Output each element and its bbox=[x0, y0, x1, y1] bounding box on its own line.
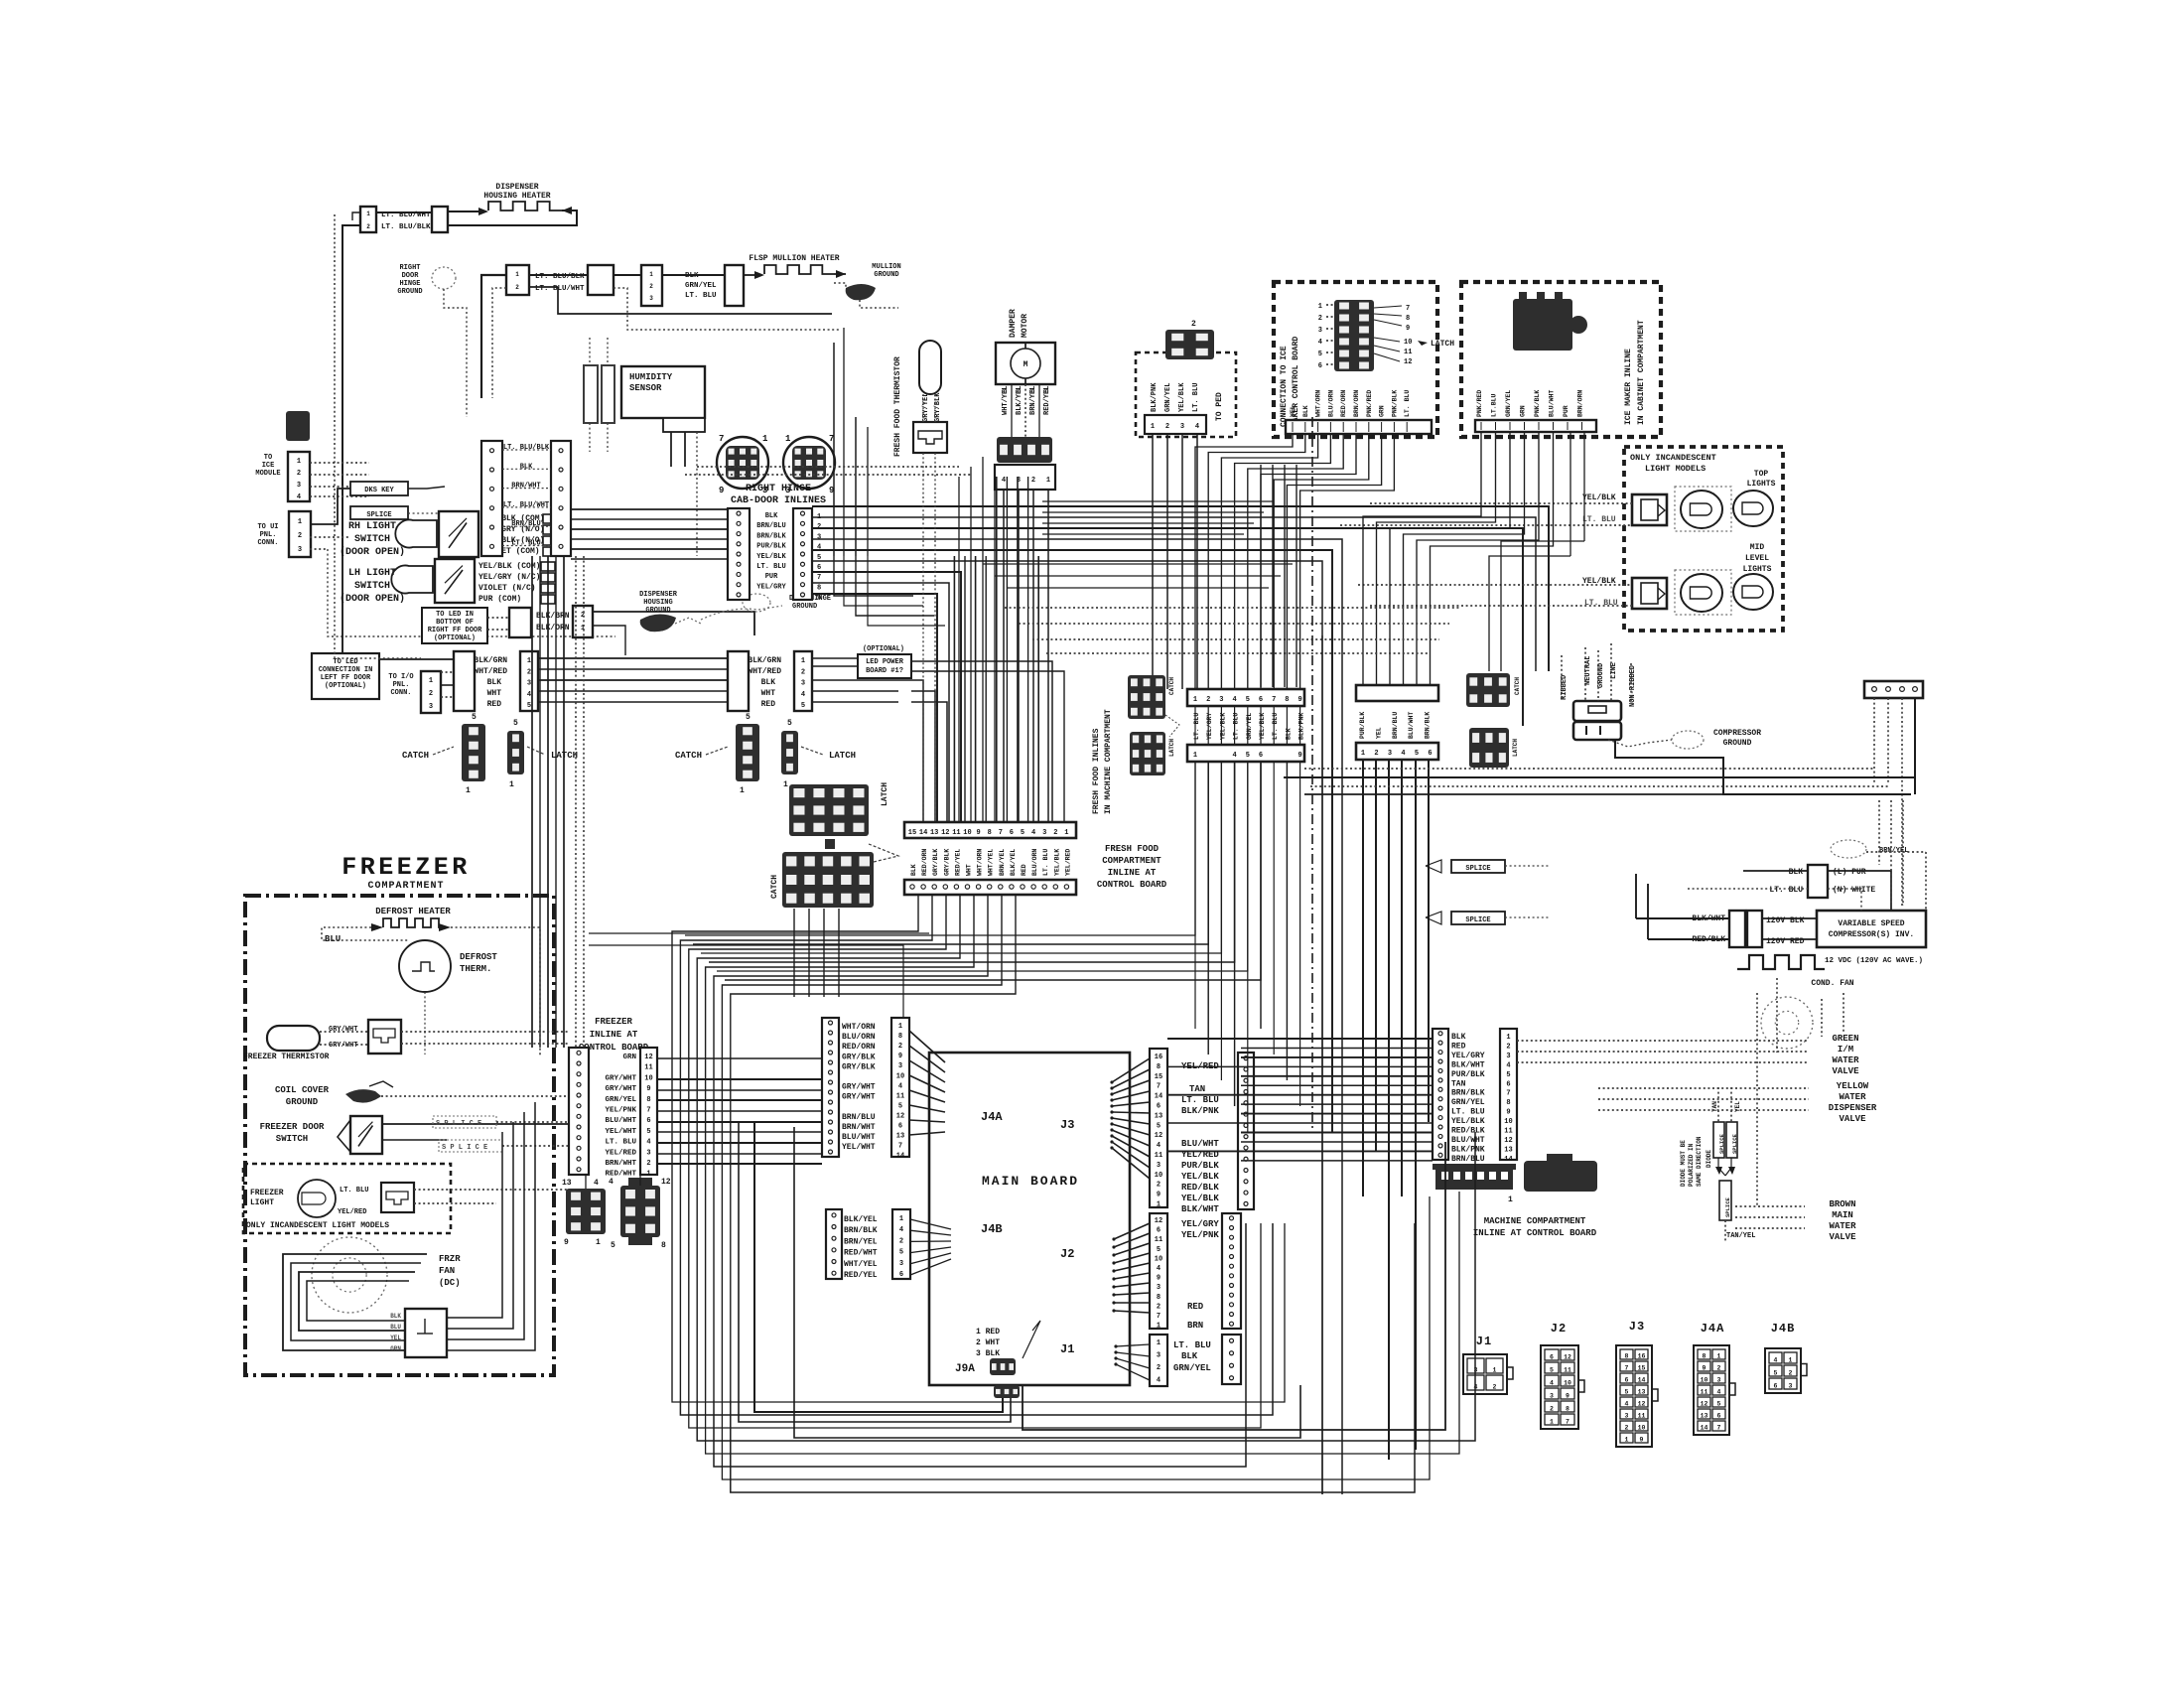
svg-text:4: 4 bbox=[801, 691, 805, 699]
svg-text:8: 8 bbox=[646, 1096, 650, 1104]
svg-text:VALVE: VALVE bbox=[1839, 1114, 1866, 1124]
svg-text:WHT/YEL: WHT/YEL bbox=[988, 849, 995, 876]
svg-text:YELLOW: YELLOW bbox=[1837, 1081, 1869, 1091]
svg-text:YEL/GRY: YEL/GRY bbox=[1181, 1219, 1219, 1229]
svg-text:9: 9 bbox=[1157, 1275, 1160, 1283]
svg-text:1: 1 bbox=[1361, 750, 1365, 758]
svg-text:BLK/YEL: BLK/YEL bbox=[844, 1215, 878, 1224]
svg-text:4: 4 bbox=[609, 1178, 614, 1187]
svg-text:13: 13 bbox=[896, 1133, 904, 1141]
svg-text:HOUSING HEATER: HOUSING HEATER bbox=[483, 192, 550, 201]
svg-text:GRY/WHT: GRY/WHT bbox=[329, 1042, 357, 1050]
svg-text:9: 9 bbox=[817, 595, 821, 603]
svg-text:10: 10 bbox=[1155, 1255, 1162, 1263]
svg-text:SWITCH: SWITCH bbox=[276, 1134, 308, 1144]
svg-text:SPLICE: SPLICE bbox=[1465, 865, 1490, 873]
svg-text:TAN: TAN bbox=[1451, 1079, 1466, 1088]
svg-text:BRN/WHT: BRN/WHT bbox=[605, 1160, 636, 1168]
svg-text:HUMIDITY: HUMIDITY bbox=[629, 372, 673, 382]
svg-text:GRN/YEL: GRN/YEL bbox=[1505, 390, 1512, 417]
svg-text:9: 9 bbox=[1157, 1192, 1160, 1199]
svg-text:8: 8 bbox=[1157, 1063, 1160, 1071]
svg-text:J1: J1 bbox=[1476, 1335, 1492, 1348]
svg-text:YEL/BLK: YEL/BLK bbox=[1259, 713, 1266, 740]
svg-text:5: 5 bbox=[899, 1249, 903, 1257]
svg-text:BLK: BLK bbox=[685, 272, 699, 280]
svg-text:TO LED: TO LED bbox=[333, 658, 357, 666]
svg-text:GRY/WHT: GRY/WHT bbox=[842, 1093, 876, 1102]
svg-text:LT. BLU: LT. BLU bbox=[1451, 1108, 1485, 1117]
svg-text:RED: RED bbox=[1187, 1302, 1204, 1312]
svg-text:WATER: WATER bbox=[1832, 1055, 1859, 1065]
svg-text:1: 1 bbox=[899, 1215, 903, 1223]
svg-text:6: 6 bbox=[1157, 1103, 1160, 1111]
svg-text:I/M: I/M bbox=[1838, 1045, 1853, 1055]
svg-text:BLU/WHT: BLU/WHT bbox=[1451, 1136, 1485, 1145]
svg-text:YEL/PNK: YEL/PNK bbox=[605, 1107, 636, 1115]
svg-text:2: 2 bbox=[1789, 1370, 1793, 1377]
svg-text:WATER: WATER bbox=[1839, 1092, 1866, 1102]
svg-text:YEL/PNK: YEL/PNK bbox=[1181, 1230, 1219, 1240]
svg-text:LT. BLU/BLK: LT. BLU/BLK bbox=[503, 444, 550, 452]
svg-text:WATER: WATER bbox=[1829, 1221, 1856, 1231]
svg-text:LT. BLU: LT. BLU bbox=[511, 540, 540, 548]
svg-text:SWITCH: SWITCH bbox=[354, 581, 390, 592]
svg-text:WHT/ORN: WHT/ORN bbox=[977, 849, 984, 876]
svg-text:9: 9 bbox=[719, 486, 724, 495]
svg-text:BRN/BLK: BRN/BLK bbox=[844, 1226, 878, 1235]
svg-text:YEL/BLK: YEL/BLK bbox=[1582, 493, 1616, 502]
svg-text:GRY/BLK: GRY/BLK bbox=[842, 1062, 876, 1071]
svg-text:13: 13 bbox=[930, 829, 938, 837]
svg-text:5: 5 bbox=[1506, 1071, 1510, 1079]
svg-text:BRN/YEL: BRN/YEL bbox=[999, 849, 1006, 876]
svg-text:BLK: BLK bbox=[390, 1313, 401, 1320]
svg-text:7: 7 bbox=[1157, 1083, 1160, 1091]
svg-text:7: 7 bbox=[1506, 1090, 1510, 1098]
svg-text:8: 8 bbox=[1506, 1099, 1510, 1107]
svg-text:COIL COVER: COIL COVER bbox=[275, 1085, 330, 1095]
svg-text:FREEZER: FREEZER bbox=[595, 1017, 632, 1027]
svg-text:BLU/ORN: BLU/ORN bbox=[842, 1033, 876, 1042]
svg-text:9: 9 bbox=[1406, 325, 1410, 333]
svg-text:2 WHT: 2 WHT bbox=[976, 1338, 1000, 1347]
svg-text:RED/ORN: RED/ORN bbox=[921, 849, 928, 876]
svg-text:2: 2 bbox=[898, 1043, 902, 1051]
svg-text:J3: J3 bbox=[1629, 1320, 1645, 1334]
svg-text:5: 5 bbox=[513, 719, 518, 728]
svg-text:CATCH: CATCH bbox=[1168, 677, 1175, 695]
svg-text:BLU: BLU bbox=[325, 934, 341, 944]
svg-text:RED: RED bbox=[761, 700, 776, 709]
svg-text:COND. FAN: COND. FAN bbox=[1811, 979, 1853, 988]
svg-text:3: 3 bbox=[817, 533, 821, 541]
svg-text:2: 2 bbox=[515, 284, 519, 291]
svg-text:4: 4 bbox=[1625, 1401, 1629, 1408]
svg-text:WHT/YEL: WHT/YEL bbox=[1002, 386, 1010, 415]
svg-text:3: 3 bbox=[1625, 1413, 1629, 1420]
svg-text:LT. BLU: LT. BLU bbox=[1769, 886, 1803, 895]
svg-text:5: 5 bbox=[1157, 1246, 1160, 1254]
svg-text:7: 7 bbox=[1406, 305, 1410, 313]
svg-text:LT. BLU/BLK: LT. BLU/BLK bbox=[381, 223, 431, 231]
svg-text:LEFT FF DOOR: LEFT FF DOOR bbox=[321, 674, 371, 682]
svg-text:2: 2 bbox=[646, 1160, 650, 1168]
svg-text:6: 6 bbox=[1774, 1383, 1778, 1390]
svg-text:3: 3 bbox=[646, 1149, 650, 1157]
svg-text:6: 6 bbox=[1506, 1080, 1510, 1088]
svg-text:3: 3 bbox=[1042, 829, 1046, 837]
svg-text:GROUND: GROUND bbox=[792, 603, 817, 611]
svg-text:4: 4 bbox=[1157, 1265, 1160, 1273]
svg-text:YEL/BLK: YEL/BLK bbox=[1181, 1194, 1219, 1203]
svg-text:SENSOR: SENSOR bbox=[629, 383, 662, 393]
svg-text:1: 1 bbox=[429, 677, 433, 685]
svg-text:BLK/PNK: BLK/PNK bbox=[1181, 1106, 1219, 1116]
svg-text:14: 14 bbox=[1155, 1093, 1162, 1101]
svg-text:11: 11 bbox=[952, 829, 960, 837]
svg-text:2: 2 bbox=[801, 668, 805, 676]
svg-text:MID: MID bbox=[1750, 543, 1765, 552]
svg-text:YEL/BLK: YEL/BLK bbox=[756, 553, 786, 561]
svg-text:CONNECTION TO ICE: CONNECTION TO ICE bbox=[1280, 346, 1289, 427]
svg-text:J9A: J9A bbox=[955, 1363, 975, 1375]
svg-text:10: 10 bbox=[1404, 339, 1412, 347]
svg-text:3: 3 bbox=[1157, 1284, 1160, 1292]
svg-text:J4A: J4A bbox=[981, 1110, 1003, 1124]
svg-text:GROUND: GROUND bbox=[397, 288, 422, 296]
svg-text:1: 1 bbox=[646, 1171, 650, 1179]
svg-text:1: 1 bbox=[527, 657, 531, 665]
svg-text:TAN/YEL: TAN/YEL bbox=[1726, 1232, 1755, 1240]
svg-text:6: 6 bbox=[1259, 696, 1263, 704]
svg-text:LATCH: LATCH bbox=[829, 751, 856, 761]
svg-text:1: 1 bbox=[509, 780, 514, 789]
svg-text:PNK/BLK: PNK/BLK bbox=[1534, 390, 1541, 417]
svg-text:CONN.: CONN. bbox=[390, 689, 411, 697]
svg-text:15: 15 bbox=[908, 829, 916, 837]
svg-text:TO I/O: TO I/O bbox=[388, 673, 413, 681]
svg-text:(L) PUR: (L) PUR bbox=[1833, 868, 1866, 877]
svg-text:4: 4 bbox=[1318, 339, 1322, 347]
svg-text:IN CABINET COMPARTMENT: IN CABINET COMPARTMENT bbox=[1637, 320, 1646, 425]
svg-text:YEL/RED: YEL/RED bbox=[605, 1149, 636, 1157]
svg-text:10: 10 bbox=[896, 1072, 904, 1080]
svg-text:LIGHT MODELS: LIGHT MODELS bbox=[1645, 464, 1706, 474]
svg-text:3: 3 bbox=[1717, 1377, 1721, 1384]
svg-text:10: 10 bbox=[1701, 1377, 1708, 1384]
svg-text:1: 1 bbox=[1151, 423, 1155, 431]
svg-text:1: 1 bbox=[740, 786, 745, 795]
svg-text:BLK/YEL: BLK/YEL bbox=[1016, 386, 1024, 415]
svg-text:3: 3 bbox=[298, 546, 302, 554]
svg-text:1: 1 bbox=[1625, 1437, 1629, 1444]
svg-text:J3: J3 bbox=[1060, 1118, 1074, 1132]
svg-text:GRN: GRN bbox=[390, 1345, 401, 1352]
svg-text:1: 1 bbox=[783, 780, 788, 789]
svg-text:7: 7 bbox=[898, 1143, 902, 1151]
svg-text:6: 6 bbox=[1625, 1377, 1629, 1384]
svg-text:4: 4 bbox=[527, 691, 531, 699]
svg-text:PNK/RED: PNK/RED bbox=[1476, 390, 1483, 417]
svg-text:BLK/PNK: BLK/PNK bbox=[1451, 1145, 1485, 1154]
svg-text:14: 14 bbox=[896, 1153, 904, 1161]
svg-text:BLK: BLK bbox=[1285, 728, 1292, 740]
svg-text:PUR: PUR bbox=[765, 573, 778, 581]
svg-text:BLK/GRN: BLK/GRN bbox=[474, 656, 507, 665]
svg-text:5: 5 bbox=[472, 713, 477, 722]
svg-text:4: 4 bbox=[1717, 1389, 1721, 1396]
svg-text:8: 8 bbox=[661, 1241, 666, 1250]
svg-text:DEFROST HEATER: DEFROST HEATER bbox=[375, 907, 451, 916]
svg-text:RED/YEL: RED/YEL bbox=[844, 1271, 878, 1280]
svg-text:1: 1 bbox=[1193, 696, 1197, 704]
svg-text:7: 7 bbox=[719, 434, 724, 444]
svg-text:YEL/BLK: YEL/BLK bbox=[1181, 1172, 1219, 1182]
svg-text:1: 1 bbox=[466, 786, 471, 795]
svg-text:8: 8 bbox=[1566, 1406, 1570, 1413]
svg-text:6: 6 bbox=[817, 564, 821, 572]
svg-text:8: 8 bbox=[1406, 315, 1410, 323]
svg-text:BRN/YEL: BRN/YEL bbox=[1029, 386, 1037, 415]
svg-text:3: 3 bbox=[801, 680, 805, 688]
svg-text:5: 5 bbox=[646, 1128, 650, 1136]
svg-text:PNK/RED: PNK/RED bbox=[1366, 390, 1373, 417]
svg-text:CATCH: CATCH bbox=[402, 751, 429, 761]
svg-text:4: 4 bbox=[1506, 1061, 1510, 1069]
svg-text:BRN/BLU: BRN/BLU bbox=[511, 520, 540, 528]
svg-text:WHT: WHT bbox=[761, 689, 776, 698]
svg-text:J4A: J4A bbox=[1701, 1322, 1725, 1336]
svg-text:YEL/RED: YEL/RED bbox=[1064, 849, 1071, 876]
svg-text:J4B: J4B bbox=[1771, 1322, 1796, 1336]
svg-text:6: 6 bbox=[1550, 1354, 1554, 1361]
svg-text:16: 16 bbox=[1155, 1054, 1162, 1061]
svg-text:BLK: BLK bbox=[1451, 1033, 1466, 1042]
svg-text:2: 2 bbox=[1493, 1384, 1497, 1391]
svg-text:MODULE: MODULE bbox=[255, 470, 280, 478]
svg-text:HINGE: HINGE bbox=[399, 280, 420, 288]
svg-text:BRN/YEL: BRN/YEL bbox=[1879, 847, 1908, 855]
svg-text:BRN/BLK: BRN/BLK bbox=[1451, 1089, 1485, 1098]
svg-text:FAN: FAN bbox=[439, 1266, 455, 1276]
svg-text:4: 4 bbox=[594, 1179, 599, 1188]
svg-text:LED POWER: LED POWER bbox=[866, 658, 904, 666]
svg-text:12: 12 bbox=[1638, 1401, 1646, 1408]
svg-text:FRESH FOOD THERMISTOR: FRESH FOOD THERMISTOR bbox=[893, 356, 902, 457]
svg-text:LT. BLU: LT. BLU bbox=[1582, 515, 1616, 524]
svg-text:GRN/YEL: GRN/YEL bbox=[1451, 1098, 1485, 1107]
svg-text:LT. BLU: LT. BLU bbox=[1404, 390, 1411, 417]
svg-text:RIGHT HINGE: RIGHT HINGE bbox=[746, 484, 811, 494]
svg-text:BLU: BLU bbox=[390, 1324, 401, 1331]
svg-text:12: 12 bbox=[1504, 1137, 1512, 1145]
svg-text:POLARIZED IN: POLARIZED IN bbox=[1688, 1143, 1695, 1187]
svg-text:RED/YEL: RED/YEL bbox=[1043, 386, 1051, 415]
svg-text:BLU/WHT: BLU/WHT bbox=[1181, 1139, 1219, 1149]
svg-text:3: 3 bbox=[297, 482, 301, 490]
svg-text:MOTOR: MOTOR bbox=[1021, 314, 1029, 338]
svg-text:14: 14 bbox=[1504, 1156, 1512, 1164]
svg-text:TAN: TAN bbox=[1189, 1084, 1205, 1094]
svg-text:BLK/WHT: BLK/WHT bbox=[1181, 1204, 1219, 1214]
svg-text:4: 4 bbox=[646, 1139, 650, 1147]
svg-text:MAIN: MAIN bbox=[1832, 1210, 1853, 1220]
svg-text:SPLICE: SPLICE bbox=[1724, 1196, 1731, 1217]
svg-text:ICE MAKER INLINE: ICE MAKER INLINE bbox=[1624, 349, 1633, 425]
svg-text:12: 12 bbox=[941, 829, 949, 837]
svg-text:(OPTIONAL): (OPTIONAL) bbox=[325, 682, 366, 690]
svg-text:1: 1 bbox=[762, 434, 768, 444]
svg-text:LATCH: LATCH bbox=[881, 782, 889, 806]
svg-text:CAB-DOOR INLINES: CAB-DOOR INLINES bbox=[731, 495, 826, 506]
svg-text:WHT/YEL: WHT/YEL bbox=[844, 1260, 878, 1269]
svg-text:FREEZER: FREEZER bbox=[250, 1189, 284, 1197]
svg-text:DEFROST: DEFROST bbox=[460, 952, 497, 962]
svg-text:PNL.: PNL. bbox=[260, 531, 277, 539]
svg-text:TOP: TOP bbox=[1754, 470, 1769, 479]
svg-text:DISPENSER: DISPENSER bbox=[639, 591, 678, 599]
svg-text:LT. BLU: LT. BLU bbox=[605, 1139, 636, 1147]
svg-text:BRN/BLU: BRN/BLU bbox=[1451, 1155, 1485, 1164]
svg-text:GRY/BLK: GRY/BLK bbox=[943, 849, 950, 876]
svg-text:7: 7 bbox=[1272, 696, 1276, 704]
svg-text:2: 2 bbox=[1717, 1365, 1721, 1372]
svg-text:9: 9 bbox=[898, 1053, 902, 1060]
svg-text:9: 9 bbox=[976, 829, 980, 837]
svg-text:11: 11 bbox=[1638, 1413, 1646, 1420]
svg-text:4: 4 bbox=[899, 1226, 903, 1234]
svg-text:11: 11 bbox=[1155, 1152, 1162, 1160]
svg-text:LT. BLU/WHT: LT. BLU/WHT bbox=[503, 501, 549, 509]
svg-text:12: 12 bbox=[644, 1054, 652, 1061]
svg-text:7: 7 bbox=[999, 829, 1003, 837]
svg-text:RED: RED bbox=[1451, 1042, 1466, 1051]
svg-text:GRY/BLK: GRY/BLK bbox=[932, 849, 939, 876]
svg-text:3: 3 bbox=[1219, 696, 1223, 704]
svg-text:1: 1 bbox=[1064, 829, 1068, 837]
svg-text:6: 6 bbox=[899, 1271, 903, 1279]
svg-text:INLINE AT CONTROL BOARD: INLINE AT CONTROL BOARD bbox=[1473, 1228, 1597, 1238]
svg-text:LATCH: LATCH bbox=[1168, 739, 1175, 757]
svg-text:LT. BLU: LT. BLU bbox=[1233, 713, 1240, 740]
svg-text:LT. BLU: LT. BLU bbox=[1272, 713, 1279, 740]
svg-text:BLK/PNK: BLK/PNK bbox=[1151, 382, 1159, 412]
svg-text:GRN: GRN bbox=[622, 1054, 636, 1061]
svg-text:INLINE AT: INLINE AT bbox=[1108, 868, 1157, 878]
svg-text:PNL.: PNL. bbox=[393, 681, 410, 689]
svg-text:12: 12 bbox=[1564, 1354, 1571, 1361]
svg-text:2: 2 bbox=[1031, 477, 1035, 485]
svg-text:2: 2 bbox=[1053, 829, 1057, 837]
svg-text:2: 2 bbox=[1165, 423, 1169, 431]
svg-text:13: 13 bbox=[562, 1179, 572, 1188]
svg-text:YEL/BLK: YEL/BLK bbox=[1219, 713, 1226, 740]
svg-text:J1: J1 bbox=[1060, 1342, 1074, 1356]
svg-text:1: 1 bbox=[1157, 1339, 1160, 1347]
svg-text:VALVE: VALVE bbox=[1832, 1066, 1859, 1076]
svg-text:5: 5 bbox=[1246, 696, 1250, 704]
svg-text:4: 4 bbox=[1550, 1380, 1554, 1387]
svg-text:M: M bbox=[1024, 360, 1028, 369]
svg-text:BRN/WHT: BRN/WHT bbox=[511, 483, 540, 491]
svg-text:GRN/YEL: GRN/YEL bbox=[685, 282, 717, 290]
svg-text:6: 6 bbox=[1318, 362, 1322, 370]
svg-text:4: 4 bbox=[1195, 423, 1199, 431]
svg-text:14: 14 bbox=[1701, 1425, 1708, 1432]
svg-text:15: 15 bbox=[1155, 1073, 1162, 1081]
svg-text:GRN: GRN bbox=[1379, 405, 1386, 417]
svg-text:16: 16 bbox=[1638, 1353, 1646, 1360]
svg-text:11: 11 bbox=[1404, 349, 1412, 356]
svg-text:8: 8 bbox=[988, 829, 992, 837]
svg-text:LT. BLU: LT. BLU bbox=[1192, 383, 1200, 412]
svg-text:ONLY INCANDESCENT LIGHT MODELS: ONLY INCANDESCENT LIGHT MODELS bbox=[246, 1221, 389, 1230]
svg-text:RH LIGHT: RH LIGHT bbox=[348, 521, 396, 532]
svg-text:9: 9 bbox=[1506, 1109, 1510, 1117]
svg-text:3: 3 bbox=[527, 680, 531, 688]
svg-text:9: 9 bbox=[646, 1085, 650, 1093]
svg-text:VARIABLE SPEED: VARIABLE SPEED bbox=[1838, 919, 1904, 928]
svg-text:YEL/GRY: YEL/GRY bbox=[1206, 713, 1213, 740]
svg-text:10: 10 bbox=[1564, 1380, 1571, 1387]
svg-text:3: 3 bbox=[1789, 1383, 1793, 1390]
svg-text:6: 6 bbox=[1259, 752, 1263, 760]
svg-text:TO UI: TO UI bbox=[257, 523, 278, 531]
svg-text:BLK: BLK bbox=[1181, 1351, 1198, 1361]
svg-text:HOUSING: HOUSING bbox=[643, 599, 672, 607]
svg-text:4: 4 bbox=[297, 493, 301, 501]
svg-text:14: 14 bbox=[919, 829, 927, 837]
svg-text:8: 8 bbox=[1625, 1353, 1629, 1360]
svg-text:1: 1 bbox=[1789, 1357, 1793, 1364]
svg-text:9: 9 bbox=[564, 1238, 569, 1247]
svg-text:3: 3 bbox=[1180, 423, 1184, 431]
svg-text:6: 6 bbox=[1428, 750, 1432, 758]
svg-text:7: 7 bbox=[817, 574, 821, 582]
svg-text:1: 1 bbox=[596, 1238, 601, 1247]
svg-text:TO PED: TO PED bbox=[1215, 392, 1224, 421]
svg-text:(OPTIONAL): (OPTIONAL) bbox=[863, 645, 904, 653]
svg-text:6: 6 bbox=[646, 1117, 650, 1125]
svg-text:BLK/WHT: BLK/WHT bbox=[1451, 1060, 1485, 1069]
svg-text:BRN/WHT: BRN/WHT bbox=[842, 1123, 876, 1132]
svg-text:IN MACHINE COMPARTMENT: IN MACHINE COMPARTMENT bbox=[1104, 709, 1113, 814]
svg-text:GRY/WHT: GRY/WHT bbox=[605, 1085, 636, 1093]
svg-text:BRN/BLU: BRN/BLU bbox=[1392, 712, 1399, 739]
svg-text:DISPENSER: DISPENSER bbox=[1829, 1103, 1877, 1113]
svg-text:TO LED IN: TO LED IN bbox=[436, 611, 474, 619]
svg-text:9: 9 bbox=[1297, 752, 1301, 760]
svg-text:6: 6 bbox=[1157, 1227, 1160, 1235]
svg-text:BLU/WHT: BLU/WHT bbox=[1408, 712, 1415, 739]
svg-text:7: 7 bbox=[1625, 1365, 1629, 1372]
svg-text:LEVEL: LEVEL bbox=[1745, 554, 1769, 563]
svg-text:ICE: ICE bbox=[262, 462, 275, 470]
svg-text:BRN/YEL: BRN/YEL bbox=[844, 1237, 878, 1246]
svg-text:FRZR: FRZR bbox=[439, 1254, 461, 1264]
svg-text:YEL/WHT: YEL/WHT bbox=[605, 1128, 636, 1136]
svg-text:10: 10 bbox=[1155, 1172, 1162, 1180]
svg-text:LT. BLU: LT. BLU bbox=[685, 292, 717, 300]
svg-text:YEL/WHT: YEL/WHT bbox=[842, 1143, 876, 1152]
svg-text:DIODE MUST BE: DIODE MUST BE bbox=[1680, 1140, 1687, 1187]
svg-text:BRN/BLK: BRN/BLK bbox=[1425, 712, 1432, 739]
svg-text:7: 7 bbox=[646, 1107, 650, 1115]
svg-text:YEL: YEL bbox=[390, 1335, 401, 1341]
svg-text:(OPTIONAL): (OPTIONAL) bbox=[434, 634, 476, 642]
svg-text:5: 5 bbox=[1550, 1367, 1554, 1374]
